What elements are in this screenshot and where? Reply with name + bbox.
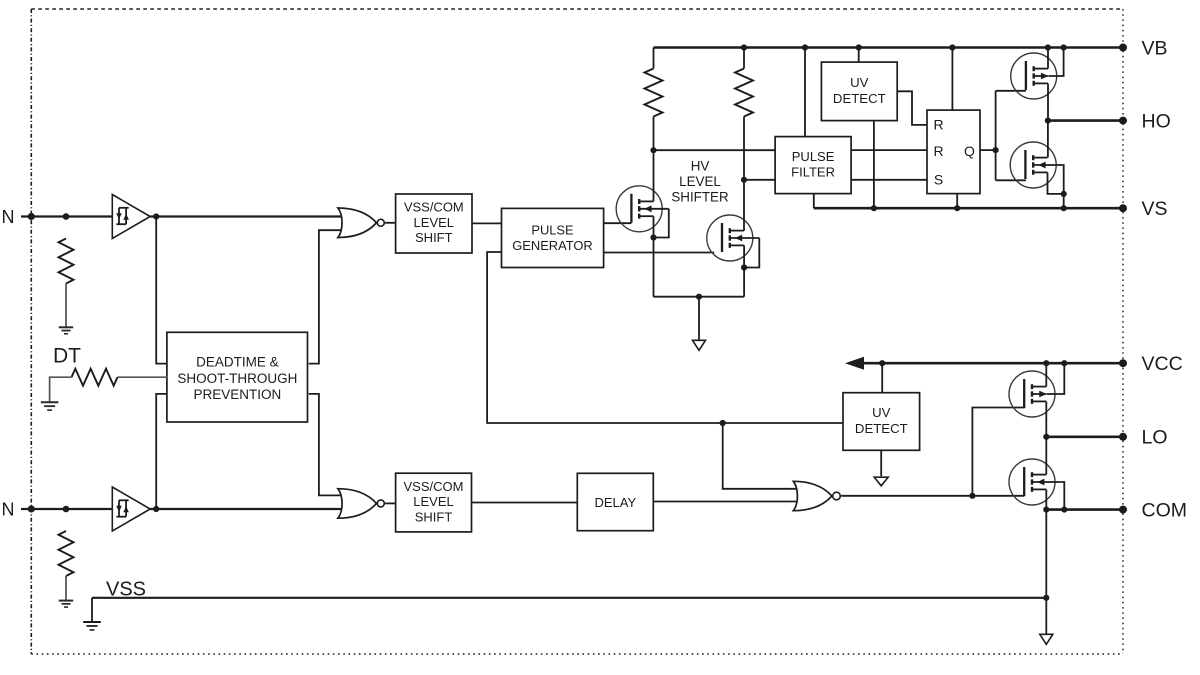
svg-text:DELAY: DELAY bbox=[594, 495, 636, 510]
svg-text:VSS/COM: VSS/COM bbox=[404, 200, 464, 215]
svg-text:LEVEL: LEVEL bbox=[414, 215, 454, 230]
svg-text:UV: UV bbox=[872, 405, 891, 420]
svg-text:FILTER: FILTER bbox=[791, 164, 835, 179]
svg-text:VB: VB bbox=[1142, 37, 1168, 59]
svg-text:SHIFT: SHIFT bbox=[415, 230, 453, 245]
svg-text:Q: Q bbox=[964, 143, 975, 159]
svg-text:UV: UV bbox=[850, 75, 869, 90]
svg-text:SHIFT: SHIFT bbox=[415, 509, 453, 524]
svg-text:DETECT: DETECT bbox=[833, 91, 886, 106]
svg-text:COM: COM bbox=[1142, 499, 1188, 521]
svg-text:R: R bbox=[933, 117, 943, 133]
svg-text:N: N bbox=[2, 500, 15, 520]
svg-text:VCC: VCC bbox=[1142, 353, 1183, 375]
svg-text:SHOOT-THROUGH: SHOOT-THROUGH bbox=[177, 371, 297, 386]
svg-text:R: R bbox=[933, 143, 943, 159]
svg-text:LO: LO bbox=[1142, 427, 1168, 449]
svg-text:LEVEL: LEVEL bbox=[413, 494, 453, 509]
svg-text:VSS: VSS bbox=[106, 579, 146, 601]
svg-text:PULSE: PULSE bbox=[792, 149, 835, 164]
svg-text:S: S bbox=[934, 171, 943, 187]
svg-text:SHIFTER: SHIFTER bbox=[671, 190, 729, 205]
svg-text:PULSE: PULSE bbox=[531, 222, 574, 237]
svg-text:LEVEL: LEVEL bbox=[679, 174, 721, 189]
svg-text:GENERATOR: GENERATOR bbox=[512, 238, 592, 253]
svg-text:PREVENTION: PREVENTION bbox=[194, 387, 282, 402]
svg-text:DT: DT bbox=[53, 345, 81, 368]
svg-text:HV: HV bbox=[691, 158, 710, 173]
svg-text:N: N bbox=[2, 207, 15, 227]
svg-text:VS: VS bbox=[1142, 198, 1168, 220]
svg-text:DEADTIME &: DEADTIME & bbox=[196, 355, 279, 370]
svg-text:VSS/COM: VSS/COM bbox=[404, 479, 464, 494]
svg-text:HO: HO bbox=[1142, 110, 1171, 132]
svg-text:DETECT: DETECT bbox=[855, 421, 908, 436]
